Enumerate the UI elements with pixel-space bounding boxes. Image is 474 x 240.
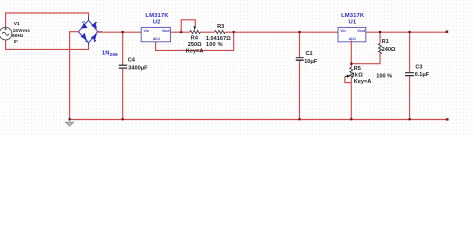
junction R4 left	[180, 31, 182, 33]
svg-text:C1: C1	[306, 51, 313, 57]
svg-text:Vout: Vout	[162, 29, 171, 33]
svg-text:1N259: 1N259	[102, 51, 118, 57]
svg-text:0.1μF: 0.1μF	[415, 72, 430, 78]
resistor R3	[215, 30, 226, 33]
potentiometer R4	[181, 20, 200, 34]
wire bridge right to U2 Vin	[98, 31, 142, 33]
junction C4 bottom	[122, 118, 124, 120]
svg-text:3400μF: 3400μF	[128, 65, 148, 71]
svg-text:U2: U2	[153, 19, 161, 25]
junction C4 top	[122, 31, 124, 33]
potentiometer R5	[345, 67, 353, 119]
diode D1c bottom-left (points to bottom vertex)	[81, 33, 87, 40]
wire junction to U1 Vin	[234, 31, 338, 33]
wire U1 ADJ down	[350, 40, 352, 67]
svg-text:Key=A: Key=A	[186, 48, 204, 54]
op U1 LM317K box	[338, 27, 366, 41]
endpoint rail right	[446, 118, 449, 120]
wire U2 Vout to R4	[170, 31, 189, 33]
svg-text:C4: C4	[128, 58, 136, 64]
capacitor C4	[119, 32, 127, 120]
junction C3 bottom	[409, 118, 411, 120]
bridge rectifier D1 diamond	[78, 17, 102, 46]
ground rail	[70, 119, 448, 121]
wire bridge left vertex down to ground rail	[70, 32, 79, 120]
diode D1a top-left (points to top vertex)	[81, 23, 88, 29]
svg-text:Vin: Vin	[144, 29, 150, 33]
svg-text:240Ω: 240Ω	[382, 47, 396, 53]
svg-text:C3: C3	[415, 64, 422, 70]
ground symbol	[66, 119, 74, 126]
capacitor C1	[296, 32, 304, 120]
svg-text:Vin: Vin	[340, 29, 346, 33]
wire V1 bottom to bridge bottom	[6, 40, 89, 49]
svg-text:U1: U1	[349, 19, 357, 25]
junction C1 bottom	[298, 118, 300, 120]
svg-text:250Ω: 250Ω	[188, 42, 202, 48]
svg-text:0°: 0°	[14, 39, 19, 45]
diode D1d bottom-right (points to right vertex)	[91, 34, 97, 41]
wire U1 Vout to end	[366, 31, 447, 33]
svg-text:60Hz: 60Hz	[12, 33, 24, 39]
diode D1b top-right (points to right vertex)	[91, 22, 97, 29]
svg-text:Vout: Vout	[357, 29, 366, 33]
junction C1 top	[298, 31, 300, 33]
junction R5 bottom	[350, 118, 352, 120]
wire R4 to R3	[200, 31, 214, 33]
svg-text:15Vrms: 15Vrms	[13, 28, 31, 34]
svg-text:LM317K: LM317K	[341, 13, 365, 19]
junction after R3	[233, 31, 235, 33]
svg-text:3kΩ: 3kΩ	[351, 73, 363, 79]
resistor R1	[351, 32, 381, 64]
svg-text:ADJ: ADJ	[153, 37, 160, 41]
svg-text:LM317K: LM317K	[145, 13, 169, 19]
svg-text:V1: V1	[14, 21, 20, 27]
junction ground	[69, 118, 71, 120]
svg-text:R3: R3	[217, 24, 224, 30]
svg-text:R5: R5	[354, 66, 361, 72]
wire V1 top to bridge top	[6, 13, 89, 27]
svg-text:100 %: 100 %	[376, 73, 392, 79]
svg-text:ADJ: ADJ	[349, 37, 356, 41]
junction R1 top	[379, 31, 381, 33]
source V1	[0, 27, 12, 40]
op U2 LM317K box	[141, 27, 170, 41]
junction C3 top	[409, 31, 411, 33]
svg-text:10μF: 10μF	[304, 59, 318, 65]
svg-text:100 %: 100 %	[206, 42, 223, 48]
svg-text:1.04167Ω: 1.04167Ω	[206, 36, 232, 42]
endpoint right	[446, 31, 449, 33]
wire R3 right to junction	[225, 31, 233, 33]
svg-text:R4: R4	[191, 36, 199, 42]
svg-text:Key=A: Key=A	[354, 79, 372, 85]
svg-text:R1: R1	[382, 39, 389, 45]
capacitor C3	[405, 32, 414, 120]
wire U2 ADJ feedback	[156, 32, 234, 50]
junction ADJ node	[350, 63, 352, 65]
